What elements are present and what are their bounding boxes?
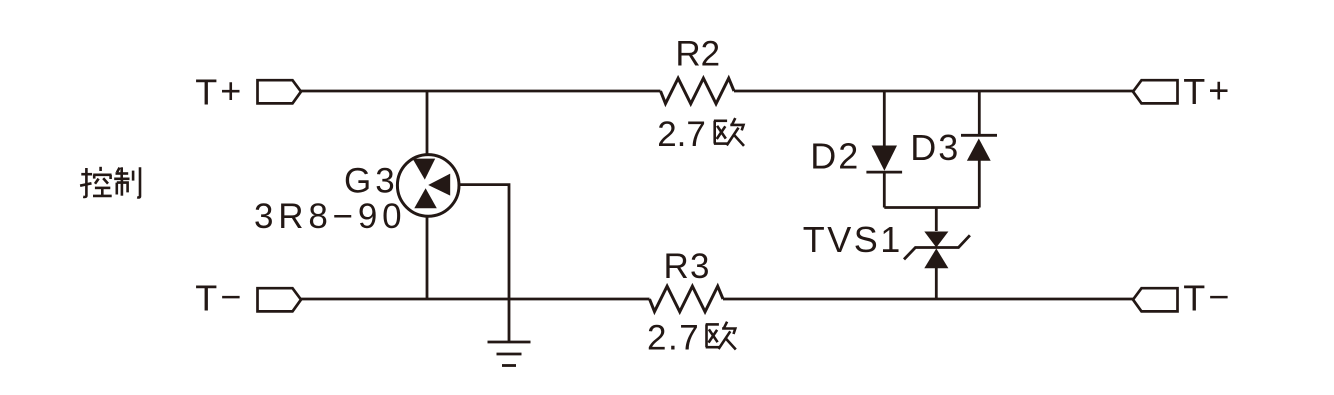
terminal T- right (pentagon) (1133, 288, 1178, 311)
wire D3 branch bottom (978, 160, 981, 208)
diode D2 bar (866, 171, 902, 174)
svg-text:T−: T− (195, 276, 244, 318)
svg-text:T−: T− (1183, 276, 1232, 318)
wire top left segment (301, 90, 661, 93)
triac G3 triangles (413, 159, 451, 209)
svg-text:T+: T+ (1183, 70, 1232, 112)
wire bottom right segment (723, 298, 1133, 301)
控 glyph (80, 167, 112, 197)
欧 glyph (R3 value) (706, 322, 736, 350)
svg-text:R2: R2 (675, 35, 720, 74)
triac G3 gate-side triangle (428, 174, 450, 196)
wire TVS1 bottom stub (935, 268, 938, 299)
svg-text:D3: D3 (910, 127, 960, 168)
terminal T- left (pentagon) (258, 288, 302, 311)
ground symbol (488, 341, 531, 344)
wire G3 cathode (circle to bottom wire) (426, 216, 429, 300)
svg-text:2.7: 2.7 (647, 319, 700, 358)
欧 glyph (R2 value) (714, 118, 744, 146)
triac G3 lower triangle (414, 188, 437, 208)
wire D3 branch top (978, 91, 981, 135)
svg-text:2.7: 2.7 (657, 115, 706, 154)
wire D2 branch bottom (883, 172, 886, 208)
wire G3 anode (top wire to circle) (426, 91, 429, 156)
resistor R3 zigzag (650, 286, 724, 312)
triac G3 circle (397, 155, 459, 217)
制 glyph (114, 167, 140, 197)
terminal T+ right (pentagon) (1133, 80, 1178, 103)
svg-text:T+: T+ (195, 70, 244, 112)
wire D2-D3 junction (884, 206, 979, 209)
svg-text:G3: G3 (344, 161, 399, 200)
diode D3 bar (961, 134, 997, 137)
svg-text:R3: R3 (664, 247, 711, 286)
node 控制 label (drawn CJK glyphs) (80, 167, 140, 198)
diode D2 triangle (down) (872, 146, 897, 171)
svg-text:D2: D2 (810, 136, 860, 177)
wire top right segment (734, 90, 1133, 93)
TVS1 bar (z-shaped) (904, 235, 970, 259)
wire TVS1 top stub (935, 208, 938, 232)
TVS1 lower triangle (up) (924, 249, 948, 269)
svg-text:3R8−90: 3R8−90 (254, 197, 406, 236)
wire D2 branch top (883, 91, 886, 147)
svg-text:TVS1: TVS1 (803, 219, 903, 260)
diode D3 triangle (up) (967, 139, 991, 161)
triac G3 upper triangle (413, 159, 436, 180)
wire G3 gate to ground (458, 185, 509, 341)
TVS1 upper triangle (down) (924, 232, 948, 248)
terminal T+ left (pentagon) (258, 80, 302, 103)
resistor R2 zigzag (661, 78, 735, 104)
wire bottom left segment (301, 298, 650, 301)
